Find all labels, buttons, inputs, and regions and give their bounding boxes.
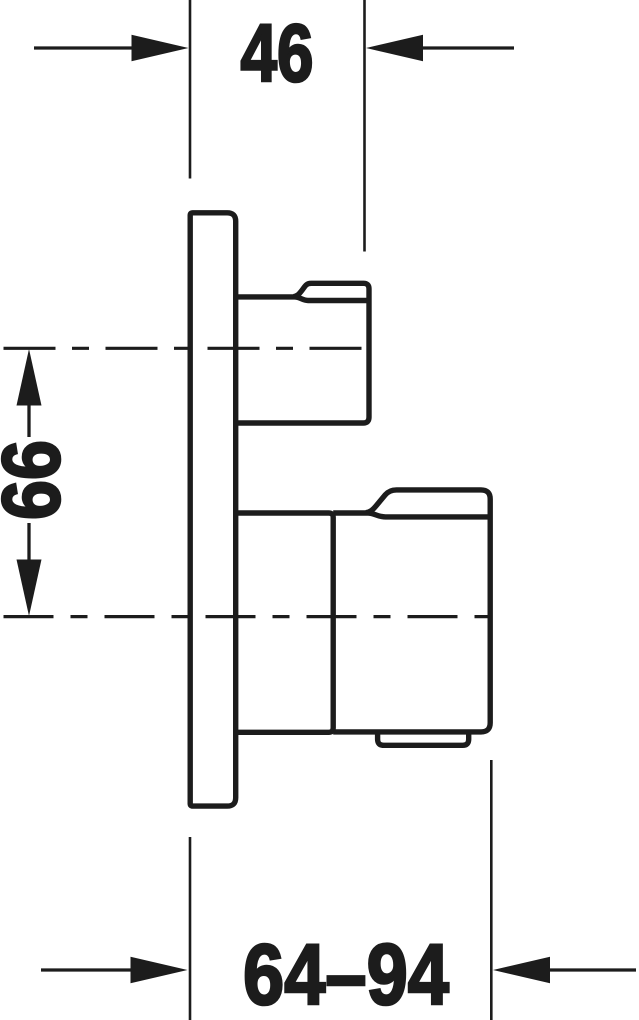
svg-text:46: 46 <box>241 8 314 99</box>
svg-text:66: 66 <box>0 440 77 520</box>
svg-text:64–94: 64–94 <box>243 927 449 1020</box>
